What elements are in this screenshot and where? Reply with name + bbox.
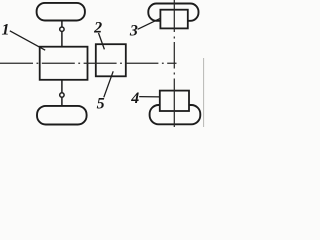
right axle centerline: dot (173, 73, 175, 75)
leader line 5 (104, 71, 113, 97)
shaft joint-to-wheel (lower) (61, 98, 63, 106)
box 2 (transfer unit) (96, 44, 126, 76)
scan artifact: faint right edge line (203, 58, 205, 127)
svg-text:5: 5 (97, 96, 105, 113)
right axle centerline: dash segment (bottom, through box 4) (173, 79, 175, 128)
universal joint lower (circle) (60, 93, 64, 97)
svg-text:1: 1 (2, 21, 10, 38)
leader line 1 (10, 31, 45, 50)
wheel front-left (37, 3, 85, 21)
universal joint upper (circle) (60, 27, 64, 31)
svg-text:2: 2 (93, 20, 102, 37)
right axle centerline: dash segment (top, through box 3) (173, 0, 175, 32)
shaft box1-to-joint (lower) (61, 80, 63, 93)
svg-text:3: 3 (129, 23, 138, 40)
shaft joint-to-box1 (upper) (61, 32, 63, 47)
leader line 3 (138, 18, 161, 29)
leader line 4 (139, 96, 160, 98)
box 4 (rear-right wheel motor) (160, 91, 189, 111)
wheel rear-right (150, 105, 201, 124)
wheel rear-left (37, 106, 87, 125)
right axle centerline: dash segment (middle) (173, 42, 175, 69)
horizontal centerline (longitudinal axis) (0, 62, 177, 64)
right axle centerline: dot (173, 37, 175, 39)
box 3 (front-right wheel motor) (160, 10, 187, 29)
shaft wheel-to-joint (upper) (61, 20, 63, 26)
box 1 (engine-gearbox unit) (40, 47, 88, 80)
svg-text:4: 4 (130, 90, 139, 107)
leader line 2 (99, 33, 105, 49)
wheel front-right (148, 4, 198, 21)
